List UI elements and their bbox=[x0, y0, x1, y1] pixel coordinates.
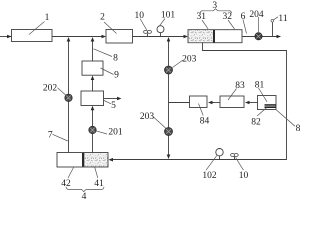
svg-text:7: 7 bbox=[48, 131, 53, 141]
svg-text:32: 32 bbox=[222, 12, 232, 22]
svg-text:8: 8 bbox=[296, 124, 300, 134]
svg-text:201: 201 bbox=[108, 128, 123, 138]
svg-text:8: 8 bbox=[113, 54, 118, 64]
svg-text:9: 9 bbox=[114, 71, 119, 81]
svg-text:102: 102 bbox=[202, 171, 217, 181]
svg-text:83: 83 bbox=[235, 81, 245, 91]
svg-text:202: 202 bbox=[43, 84, 58, 94]
svg-text:203: 203 bbox=[140, 112, 155, 122]
svg-text:10: 10 bbox=[135, 11, 145, 21]
svg-text:82: 82 bbox=[251, 118, 261, 128]
svg-text:42: 42 bbox=[61, 179, 71, 189]
svg-text:10: 10 bbox=[239, 171, 249, 181]
svg-text:203: 203 bbox=[182, 55, 197, 65]
svg-text:3: 3 bbox=[212, 1, 217, 11]
svg-text:11: 11 bbox=[278, 14, 287, 24]
svg-text:31: 31 bbox=[196, 12, 206, 22]
svg-text:5: 5 bbox=[111, 101, 116, 111]
svg-text:2: 2 bbox=[100, 13, 105, 23]
svg-text:6: 6 bbox=[241, 12, 246, 22]
svg-text:1: 1 bbox=[45, 13, 50, 23]
svg-text:101: 101 bbox=[161, 11, 176, 21]
svg-text:204: 204 bbox=[249, 10, 264, 20]
svg-text:84: 84 bbox=[200, 117, 210, 127]
svg-text:4: 4 bbox=[82, 192, 87, 200]
svg-text:81: 81 bbox=[255, 81, 265, 91]
svg-text:41: 41 bbox=[94, 179, 104, 189]
